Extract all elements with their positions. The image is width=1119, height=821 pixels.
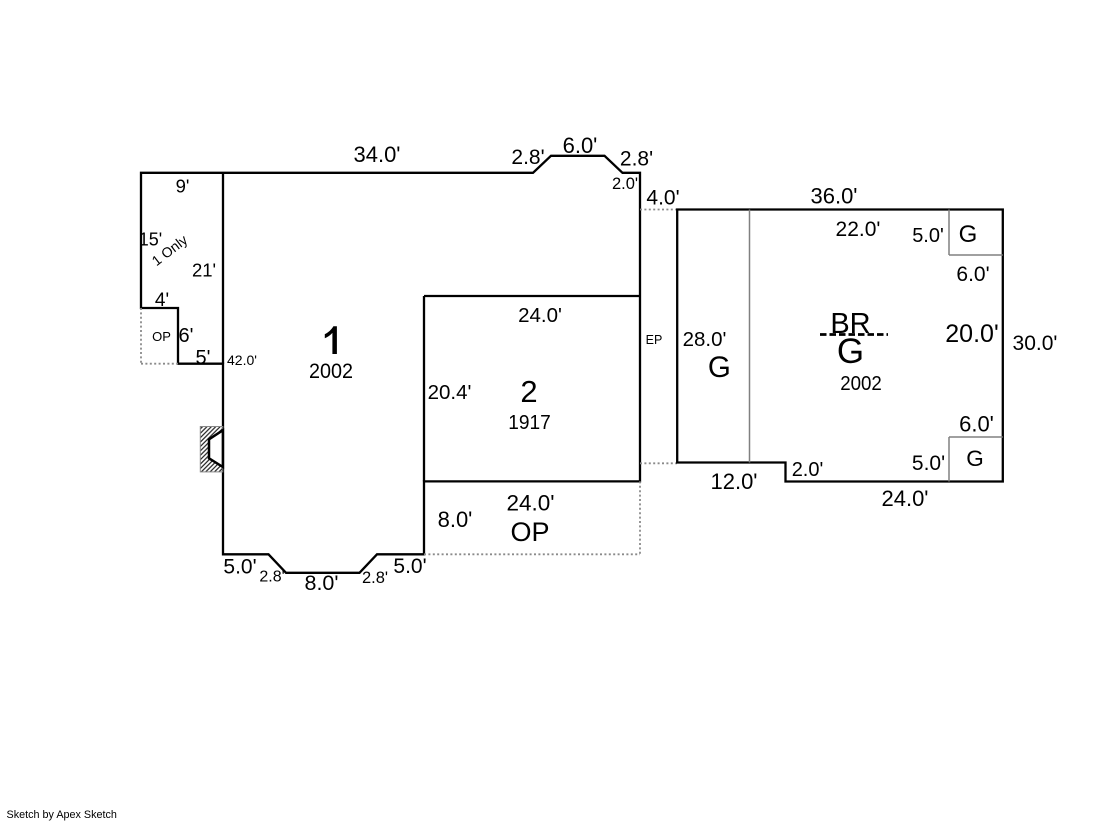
- svg-text:6.0': 6.0': [959, 412, 994, 437]
- dashed edge: OP porch bottom: [424, 553, 640, 555]
- svg-text:G: G: [708, 351, 731, 384]
- svg-text:24.0': 24.0': [881, 486, 928, 511]
- svg-text:4.0': 4.0': [646, 187, 679, 210]
- svg-text:G: G: [837, 332, 864, 371]
- svg-text:2002: 2002: [309, 360, 353, 383]
- svg-text:2002: 2002: [840, 373, 882, 395]
- svg-text:42.0': 42.0': [227, 352, 257, 368]
- svg-text:5': 5': [196, 347, 211, 369]
- svg-text:2: 2: [520, 374, 537, 409]
- svg-text:6': 6': [179, 325, 194, 347]
- svg-text:OP: OP: [510, 517, 549, 547]
- dashed edge: OP wing left: [140, 308, 142, 364]
- partition: garage bottom-right box horizontal: [949, 436, 1003, 438]
- partition: garage top-right box vertical: [948, 210, 950, 256]
- dashed edge: OP porch right: [639, 481, 641, 554]
- svg-text:5.0': 5.0': [393, 555, 426, 578]
- svg-text:36.0': 36.0': [810, 184, 857, 209]
- svg-text:2.8': 2.8': [362, 569, 388, 587]
- svg-text:15': 15': [139, 230, 162, 250]
- svg-text:28.0': 28.0': [683, 328, 727, 351]
- svg-text:2.0': 2.0': [792, 459, 824, 481]
- svg-text:21': 21': [192, 260, 216, 281]
- dashed edge: EP bottom: [640, 462, 677, 464]
- svg-text:22.0': 22.0': [836, 218, 881, 241]
- svg-text:G: G: [959, 221, 978, 248]
- svg-text:EP: EP: [646, 333, 663, 347]
- svg-text:OP: OP: [152, 329, 171, 344]
- fireplace hatched box: [200, 427, 223, 472]
- svg-text:6.0': 6.0': [956, 263, 989, 286]
- fireplace firebox: [209, 430, 223, 467]
- partition: garage bottom-right box vertical: [948, 437, 950, 482]
- svg-text:2.8': 2.8': [259, 569, 284, 586]
- dashed edge: EP top: [640, 209, 677, 211]
- svg-text:2.8': 2.8': [511, 146, 544, 169]
- svg-text:4': 4': [155, 290, 169, 311]
- svg-text:2.0': 2.0': [612, 175, 638, 193]
- svg-text:5.0': 5.0': [912, 452, 945, 475]
- wall: area 2 left partition: [423, 296, 425, 481]
- svg-text:G: G: [966, 446, 984, 471]
- svg-text:6.0': 6.0': [563, 133, 598, 158]
- svg-text:9': 9': [176, 176, 190, 197]
- svg-text:Sketch by Apex Sketch: Sketch by Apex Sketch: [7, 809, 117, 821]
- wall: area 2 top partition: [424, 295, 640, 297]
- svg-text:34.0': 34.0': [353, 142, 400, 167]
- svg-text:2.8': 2.8': [620, 148, 653, 171]
- svg-text:5.0': 5.0': [912, 225, 944, 247]
- dashed line under BR: [820, 333, 888, 336]
- svg-text:8.0': 8.0': [438, 507, 473, 532]
- wall: garage perimeter: [677, 210, 1003, 482]
- wall: interior partition 21' (x=223): [222, 173, 224, 364]
- svg-text:24.0': 24.0': [506, 491, 554, 516]
- svg-text:20.4': 20.4': [428, 381, 472, 404]
- svg-text:1917: 1917: [508, 412, 551, 434]
- dashed edge: OP wing bottom: [141, 363, 178, 365]
- svg-text:5.0': 5.0': [223, 556, 256, 579]
- partition: garage top-right box horizontal: [949, 254, 1003, 256]
- wall: building 1 perimeter: [141, 156, 640, 573]
- svg-text:20.0': 20.0': [945, 320, 998, 348]
- svg-text:8.0': 8.0': [305, 571, 339, 595]
- svg-text:30.0': 30.0': [1013, 332, 1058, 355]
- svg-text:12.0': 12.0': [710, 469, 757, 494]
- svg-text:24.0': 24.0': [518, 304, 562, 327]
- partition: garage left bay (gray): [749, 210, 751, 463]
- label area number 1: [325, 326, 337, 354]
